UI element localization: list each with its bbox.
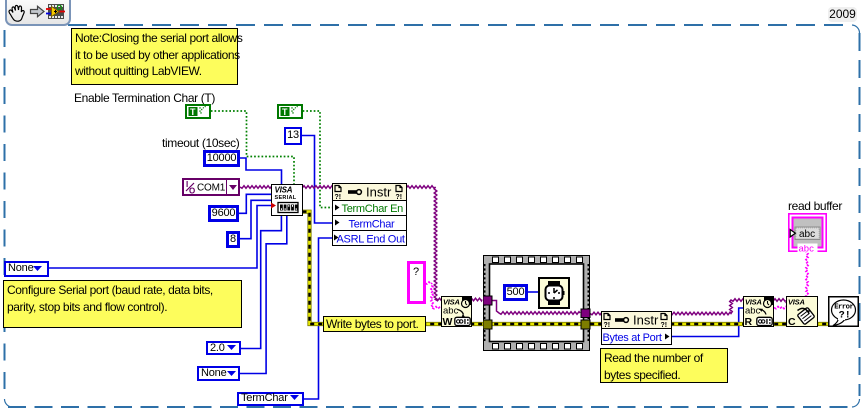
- svg-text:TermChar: TermChar: [349, 219, 396, 231]
- svg-text:abc: abc: [745, 306, 761, 317]
- svg-text:Instr: Instr: [633, 313, 659, 328]
- svg-text:?!: ?!: [839, 311, 851, 322]
- svg-text:abc: abc: [799, 229, 815, 240]
- svg-text:I: I: [186, 180, 188, 189]
- svg-text:R: R: [745, 316, 753, 327]
- svg-text:SERIAL: SERIAL: [275, 195, 297, 201]
- svg-text:?!: ?!: [661, 322, 668, 329]
- svg-text:?: ?: [413, 266, 419, 278]
- svg-text:VISA: VISA: [275, 186, 293, 195]
- svg-text:?!: ?!: [335, 194, 342, 201]
- svg-text:abc: abc: [443, 306, 459, 317]
- svg-text:C: C: [788, 316, 796, 327]
- svg-text:abc: abc: [799, 244, 815, 253]
- svg-text:T: T: [282, 107, 288, 117]
- svg-text:W: W: [443, 316, 453, 327]
- svg-text:ASRL End Out: ASRL End Out: [337, 234, 405, 246]
- svg-text:T: T: [190, 107, 196, 117]
- svg-text:Instr: Instr: [366, 185, 392, 200]
- svg-text:Bytes at Port: Bytes at Port: [603, 332, 662, 344]
- svg-text:?!: ?!: [396, 194, 403, 201]
- svg-text:COM1: COM1: [197, 183, 226, 194]
- svg-text:TermChar En: TermChar En: [342, 203, 404, 215]
- svg-text:VISA: VISA: [788, 298, 805, 307]
- svg-text:?!: ?!: [604, 322, 611, 329]
